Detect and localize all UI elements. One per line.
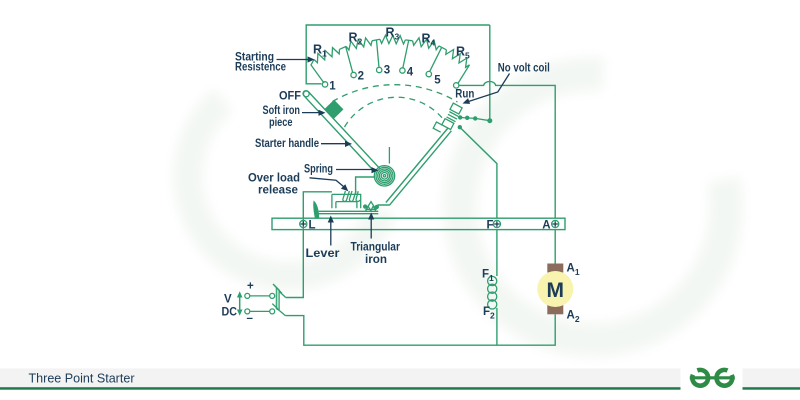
motor M — [537, 264, 573, 315]
footer strip — [0, 368, 681, 387]
handle arm to no volt coil — [378, 128, 452, 205]
wire A terminal down to motor — [554, 230, 556, 264]
triangular iron — [363, 202, 379, 211]
dashed travel arc inner — [345, 97, 444, 127]
lever flag — [313, 200, 319, 217]
box right edge wire — [489, 25, 491, 119]
svg-text:L: L — [309, 220, 316, 232]
OFF stud — [279, 91, 309, 103]
svg-text:Over load: Over load — [248, 173, 300, 185]
wire F terminal down to field coil — [496, 230, 498, 276]
label Starting Resistence with arrow — [235, 52, 315, 74]
svg-text:4: 4 — [407, 67, 414, 79]
wire Run to A terminal with hop over vertical — [459, 81, 555, 218]
junction dots at no volt coil — [458, 115, 493, 129]
svg-text:Resistence: Resistence — [235, 62, 286, 74]
label Over load release with arrow — [248, 173, 348, 197]
svg-text:M: M — [547, 279, 565, 302]
label Triangular iron with arrow — [351, 213, 401, 267]
wire no volt coil to F terminal — [460, 127, 497, 218]
svg-text:Starter handle: Starter handle — [255, 138, 319, 150]
lever — [319, 211, 379, 213]
svg-text:DC: DC — [222, 307, 238, 319]
svg-text:R3: R3 — [386, 26, 400, 42]
svg-text:piece: piece — [269, 117, 293, 129]
svg-text:No volt coil: No volt coil — [498, 63, 550, 75]
svg-text:iron: iron — [365, 254, 387, 266]
svg-text:Triangular: Triangular — [351, 242, 401, 254]
junction wire R2-R3 and spoke to stud 3 — [372, 39, 380, 67]
stud 4 — [400, 67, 414, 79]
stud 1 — [322, 81, 336, 93]
terminal L — [300, 220, 316, 232]
svg-text:A1: A1 — [567, 263, 580, 278]
wire spring to overload release — [356, 177, 375, 194]
svg-text:release: release — [258, 185, 298, 197]
no volt coil U-core — [433, 100, 463, 136]
label No volt coil with arrow — [463, 63, 550, 104]
resistor R4 — [413, 32, 439, 50]
junction wire R4-R5 and spoke to stud 5 — [430, 46, 447, 72]
terminal A — [542, 220, 559, 232]
bus bar — [272, 218, 565, 229]
wire L terminal down to switch — [286, 228, 304, 298]
Run stud — [454, 83, 475, 101]
resistor R1 — [313, 43, 340, 63]
stud 5 — [426, 71, 441, 86]
over load release bracket — [332, 194, 361, 208]
svg-text:R1: R1 — [313, 43, 327, 59]
over load release coil — [343, 191, 360, 201]
svg-text:Lever: Lever — [306, 248, 341, 260]
DPST switch — [245, 284, 286, 316]
svg-text:Run: Run — [455, 89, 474, 101]
svg-text:A: A — [542, 220, 550, 232]
label Soft iron piece with arrow — [263, 105, 326, 129]
svg-text:V: V — [224, 294, 232, 306]
soft iron piece — [324, 100, 343, 119]
supply V DC labels — [222, 281, 255, 325]
svg-text:R4: R4 — [422, 32, 436, 48]
field coil F1 F2 — [488, 276, 497, 309]
svg-text:F: F — [486, 220, 493, 232]
svg-text:R2: R2 — [349, 31, 363, 47]
junction wire R3-R4 and spoke to stud 4 — [403, 40, 413, 68]
svg-text:Soft iron: Soft iron — [263, 105, 301, 117]
junction wire R1-R2 and spoke to stud 2 — [340, 46, 353, 72]
svg-text:3: 3 — [384, 65, 390, 77]
starting resistance box — [306, 25, 490, 84]
terminal F — [486, 220, 500, 232]
resistor R2 — [346, 31, 372, 51]
wires linking coil dots — [460, 118, 490, 121]
label Spring with arrow — [304, 164, 379, 176]
svg-text:2: 2 — [358, 71, 364, 83]
resistor R3 — [380, 26, 406, 45]
label Starter handle with arrow — [255, 138, 352, 150]
svg-text:Three Point Starter: Three Point Starter — [29, 372, 135, 386]
stud 2 — [351, 71, 364, 83]
wire L terminal to overload release — [303, 192, 332, 225]
wire switch minus to bottom wire — [285, 314, 555, 345]
wire R5 to Run stud — [458, 65, 470, 84]
dashed travel arc outer — [333, 85, 458, 102]
svg-text:5: 5 — [434, 75, 441, 87]
svg-text:Spring: Spring — [304, 164, 333, 176]
wire R1 to stud 1 — [311, 60, 324, 84]
stud 3 — [377, 65, 391, 77]
svg-text:OFF: OFF — [279, 91, 301, 103]
footer green line — [0, 387, 681, 390]
svg-text:R5: R5 — [456, 45, 470, 61]
svg-text:1: 1 — [329, 81, 336, 93]
svg-text:+: + — [247, 281, 254, 293]
spring — [374, 147, 394, 186]
svg-text:–: – — [247, 313, 254, 325]
GeeksforGeeks logo — [690, 368, 735, 388]
wire field coil to bottom wire — [496, 308, 498, 345]
label Lever with arrow — [306, 216, 341, 261]
starter handle — [303, 91, 380, 173]
resistor R5 — [446, 45, 470, 68]
